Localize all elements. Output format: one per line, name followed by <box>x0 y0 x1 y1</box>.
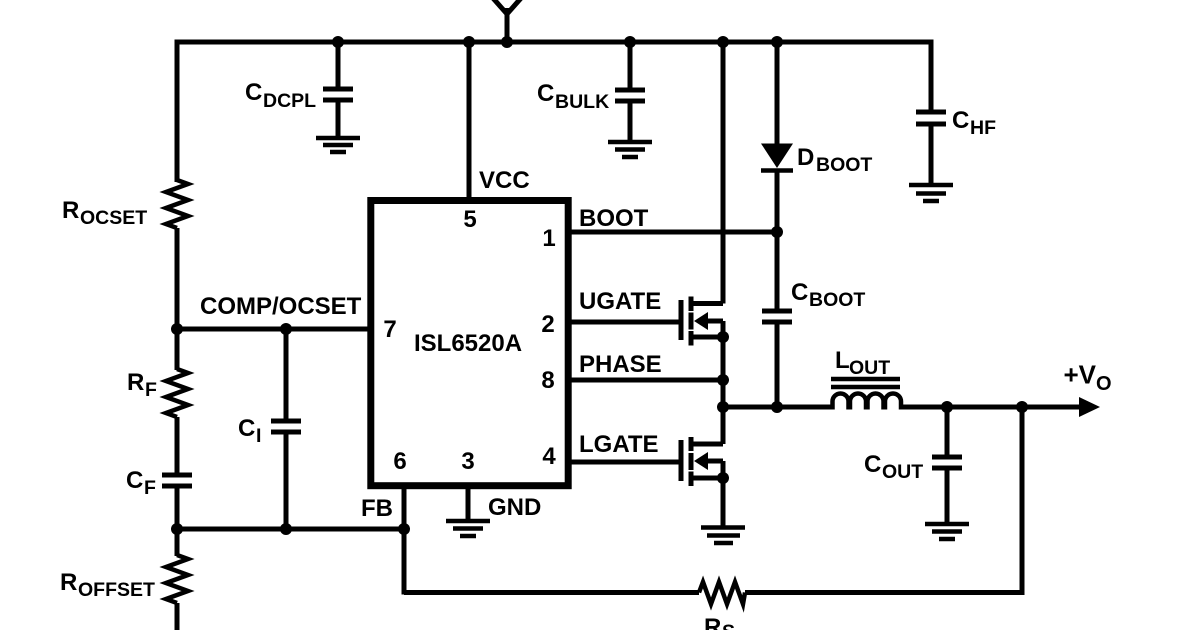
svg-text:OUT: OUT <box>882 461 923 483</box>
svg-text:DCPL: DCPL <box>263 90 316 112</box>
svg-text:BOOT: BOOT <box>579 205 649 232</box>
svg-text:R: R <box>60 569 77 596</box>
svg-text:1: 1 <box>542 225 555 252</box>
wire RS feedback drop <box>1020 407 1025 595</box>
svg-text:LGATE: LGATE <box>579 431 659 458</box>
node dot rail-VIN arrow <box>501 36 513 48</box>
svg-text:R: R <box>62 197 79 224</box>
node dot rail-DBOOT <box>771 36 783 48</box>
wire COMP/OCSET pin 7 <box>177 293 370 329</box>
svg-text:GND: GND <box>488 494 541 521</box>
svg-text:C: C <box>791 279 808 306</box>
wire ROFFSET to bottom edge <box>175 603 180 630</box>
capacitor CBULK <box>537 44 645 140</box>
svg-text:I: I <box>256 425 261 447</box>
svg-text:VCC: VCC <box>479 167 530 194</box>
svg-text:R: R <box>704 614 721 630</box>
node dot rail-VCC <box>463 36 475 48</box>
svg-text:OCSET: OCSET <box>80 207 147 229</box>
capacitor CHF <box>916 107 996 183</box>
capacitor CDCPL <box>245 44 353 136</box>
ground for CDCPL <box>316 138 360 152</box>
svg-text:BULK: BULK <box>555 91 609 113</box>
ground for Q2 source <box>701 528 745 544</box>
svg-text:R: R <box>127 369 144 396</box>
svg-text:BOOT: BOOT <box>816 154 872 176</box>
wire PHASE pin 8 <box>569 351 723 380</box>
top VIN rail wire <box>177 42 931 182</box>
svg-text:2: 2 <box>541 311 554 338</box>
node dot Q2 source <box>717 472 729 484</box>
wire LGATE pin 4 <box>569 431 679 462</box>
svg-text:FB: FB <box>361 495 393 522</box>
svg-text:C: C <box>238 415 255 442</box>
node dot FB-CI <box>280 523 292 535</box>
node dot output-COUT <box>941 401 953 413</box>
wire GND pin 3 <box>468 486 541 521</box>
svg-text:C: C <box>245 79 262 106</box>
node dot rail-CBULK <box>624 36 636 48</box>
wire CF to ROFFSET <box>175 488 180 556</box>
resistor ROFFSET <box>60 555 188 603</box>
IC U1 ISL6520A <box>371 201 568 486</box>
node dot rail-upper FET drain <box>717 36 729 48</box>
capacitor CBOOT <box>762 232 865 407</box>
svg-text:S: S <box>722 621 735 630</box>
svg-text:COMP/OCSET: COMP/OCSET <box>200 293 362 320</box>
resistor RS <box>699 582 745 630</box>
wire phase node to inductor <box>723 405 834 410</box>
svg-text:BOOT: BOOT <box>809 289 865 311</box>
wire RS right segment <box>745 590 1025 595</box>
capacitor CF <box>126 467 192 499</box>
svg-text:C: C <box>537 80 554 107</box>
node dot COMP-CI <box>280 323 292 335</box>
node dot COMP-left rail <box>171 323 183 335</box>
capacitor CI <box>238 329 301 529</box>
svg-text:O: O <box>1096 373 1112 395</box>
svg-text:C: C <box>126 467 143 494</box>
svg-text:6: 6 <box>393 448 406 475</box>
node dot phase-output line <box>717 401 729 413</box>
node dot rail-CDCPL <box>332 36 344 48</box>
node dot PHASE junction <box>717 374 729 386</box>
inductor LOUT <box>831 347 901 410</box>
wire VCC <box>469 42 530 200</box>
node dot CBOOT-phase line <box>771 401 783 413</box>
svg-text:5: 5 <box>463 206 476 233</box>
capacitor COUT <box>864 407 962 522</box>
svg-text:F: F <box>144 477 156 499</box>
svg-text:D: D <box>797 144 814 171</box>
svg-text:L: L <box>835 347 850 374</box>
resistor ROCSET <box>62 180 188 229</box>
+VIN input arrow <box>492 0 522 44</box>
svg-text:C: C <box>952 107 969 134</box>
wire BOOT pin 1 <box>569 205 777 232</box>
svg-text:OFFSET: OFFSET <box>78 579 155 601</box>
node dot Q1 source <box>717 331 729 343</box>
svg-text:4: 4 <box>542 443 556 470</box>
ground for COUT <box>925 524 969 539</box>
ground for GND pin <box>446 521 490 536</box>
node dot FB pin junction <box>398 523 410 535</box>
resistor RF <box>127 369 188 417</box>
svg-text:7: 7 <box>383 316 396 343</box>
svg-text:+V: +V <box>1064 360 1097 390</box>
svg-text:C: C <box>864 451 881 478</box>
svg-text:UGATE: UGATE <box>579 288 661 315</box>
svg-text:8: 8 <box>541 367 554 394</box>
svg-text:3: 3 <box>461 448 474 475</box>
transistor Q2 lower MOSFET <box>681 407 723 527</box>
node dot output-RS feedback <box>1016 401 1028 413</box>
wire RF to CF <box>175 417 180 473</box>
svg-text:HF: HF <box>970 117 996 139</box>
wire left rail ROCSET to RF <box>175 228 180 370</box>
svg-text:F: F <box>145 379 157 401</box>
diode DBOOT <box>761 44 872 232</box>
wire UGATE pin 2 <box>569 288 679 322</box>
node dot FB-left rail <box>171 523 183 535</box>
node dot BOOT-DBOOT-CBOOT <box>771 226 783 238</box>
wire FB net <box>177 486 699 595</box>
svg-text:PHASE: PHASE <box>579 351 662 378</box>
svg-text:ISL6520A: ISL6520A <box>414 330 522 357</box>
ground for CBULK <box>608 142 652 157</box>
transistor Q1 upper MOSFET <box>681 42 723 407</box>
svg-text:OUT: OUT <box>849 357 890 379</box>
ground for CHF <box>909 185 953 201</box>
wire output line with arrow <box>899 360 1112 418</box>
